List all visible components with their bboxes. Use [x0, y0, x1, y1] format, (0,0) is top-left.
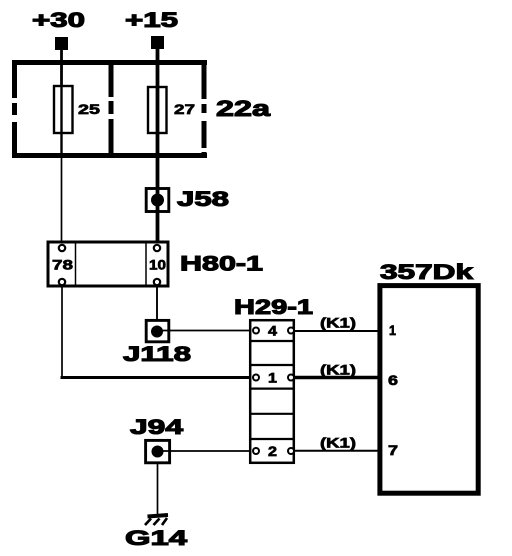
svg-text:2: 2: [268, 443, 277, 459]
relay contact J58: [146, 189, 169, 212]
svg-text:78: 78: [52, 257, 73, 273]
wire +15 terminal down through fuse 27 to J58: [156, 49, 160, 190]
relay contact J94: [146, 440, 170, 462]
pin 78 top circle: [59, 245, 65, 251]
wire H29-1 pin 2 to 357Dk pin 7: [295, 450, 379, 452]
ground symbol: [148, 515, 169, 517]
svg-text:(K1): (K1): [320, 362, 356, 378]
svg-text:7: 7: [388, 442, 398, 458]
fuse holder box 22a: right edge (dashed): [202, 60, 207, 158]
svg-text:1: 1: [389, 322, 396, 338]
fuse 25: [54, 86, 73, 133]
wire J58 to H80-1 pin 10: [156, 213, 160, 247]
wire fuse 25 to H80-1 pin 78: [61, 158, 63, 246]
wire H80-1 pin 10 down to J118: [156, 286, 158, 320]
svg-text:357Dk: 357Dk: [380, 261, 473, 284]
svg-text:H80-1: H80-1: [180, 253, 263, 276]
wire J94 down to ground: [157, 464, 159, 514]
svg-text:1: 1: [268, 370, 277, 386]
svg-text:27: 27: [174, 101, 195, 117]
terminal +30: [55, 37, 68, 50]
svg-text:25: 25: [78, 101, 100, 117]
terminal +15: [151, 36, 164, 49]
fuse holder box 22a: top edge: [12, 60, 207, 65]
wire across to H29-1 pin 1: [61, 376, 253, 379]
svg-text:J58: J58: [177, 188, 229, 211]
connector H80-1: [48, 242, 168, 286]
svg-text:(K1): (K1): [320, 315, 356, 331]
fuse box divider (dashed): [109, 64, 114, 154]
wire J94 to H29-1 pin 2: [162, 450, 252, 452]
svg-text:J118: J118: [123, 343, 191, 366]
fuse holder box 22a: left edge (dashed): [12, 60, 17, 158]
svg-text:(K1): (K1): [320, 434, 356, 450]
fuse holder box 22a: bottom edge: [12, 153, 207, 158]
svg-text:+30: +30: [32, 9, 85, 32]
svg-text:10: 10: [149, 257, 166, 273]
svg-text:6: 6: [388, 372, 398, 388]
svg-text:22a: 22a: [216, 96, 271, 121]
wire H80-1 pin 78 down: [61, 286, 63, 376]
relay contact J118: [146, 320, 169, 341]
fuse 27: [148, 87, 167, 133]
control unit 357Dk: [380, 286, 478, 494]
H29-1 pin 2 circles: [253, 448, 259, 454]
H29-1 pin 1 circles: [253, 375, 259, 381]
svg-text:H29-1: H29-1: [234, 296, 313, 319]
H29-1 pin 4 circles: [253, 328, 259, 334]
svg-text:J94: J94: [130, 416, 183, 439]
pin 10 bottom circle: [154, 279, 160, 285]
pin 78 bottom circle: [59, 279, 65, 285]
svg-text:G14: G14: [125, 527, 187, 550]
wire H29-1 pin 1 to 357Dk pin 6: [295, 376, 379, 379]
pin 10 top circle: [154, 245, 160, 251]
wire H29-1 pin 4 to 357Dk pin 1: [295, 330, 379, 332]
wire through fuse 25 down: [60, 86, 62, 158]
svg-text:4: 4: [268, 323, 277, 339]
wire J118 to H29-1 pin 4: [161, 330, 252, 332]
wire +30 terminal to fuse row: [60, 50, 63, 86]
connector H29-1: [250, 320, 294, 463]
svg-text:+15: +15: [125, 9, 178, 32]
